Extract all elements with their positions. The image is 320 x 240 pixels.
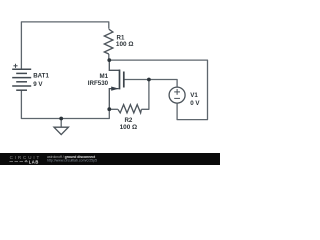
resistor R1 [104, 29, 113, 54]
mosfet M1 drain lead [109, 60, 119, 70]
voltage source V1 minus [174, 97, 180, 99]
svg-text:BAT1: BAT1 [33, 73, 49, 80]
wire: ground stem [60, 119, 62, 128]
wire: battery negative down to bottom-left rail [21, 90, 109, 118]
svg-text:0 V: 0 V [190, 100, 200, 107]
svg-text:LAB: LAB [29, 159, 39, 164]
svg-text:IRF530: IRF530 [88, 80, 109, 87]
ground [54, 127, 68, 134]
wire: junction above R2 down to R2 right lead [141, 80, 149, 110]
mosfet M1 source arrow [111, 87, 119, 91]
mosfet M1 channel plate [119, 70, 121, 90]
svg-text:http://www.circuitlab.com/c/25: http://www.circuitlab.com/c/25p5 [47, 159, 97, 163]
junction node A [107, 58, 111, 62]
voltage source V1 plus [174, 89, 180, 95]
svg-text:100 Ω: 100 Ω [116, 41, 134, 48]
voltage source V1 [169, 87, 185, 103]
mosfet M1 gate plate [123, 72, 125, 88]
resistor R2 [118, 105, 141, 113]
svg-text:R2: R2 [124, 117, 132, 124]
svg-text:9 V: 9 V [33, 81, 43, 88]
junction ground node [59, 117, 63, 121]
wire: gate lead across to V1 positive [124, 80, 177, 88]
wire: battery positive up and across top to R1 [21, 22, 108, 69]
battery BAT1 [12, 69, 31, 90]
junction gate/R2 node [147, 78, 151, 82]
watermark [0, 153, 220, 165]
mosfet M1 source lead [109, 89, 118, 110]
svg-text:V1: V1 [190, 92, 198, 99]
battery BAT1 polarity + [13, 64, 17, 68]
svg-text:100 Ω: 100 Ω [120, 124, 138, 131]
wire: R1 bottom lead to node A [108, 54, 110, 60]
watermark logo wave [9, 160, 28, 162]
junction R2 left node [107, 107, 111, 111]
mosfet M1 [109, 60, 124, 109]
wire: R2 left lead to junction [109, 108, 118, 110]
wire: node A to top-right corner, down right edge, to V1 negative [109, 60, 207, 120]
